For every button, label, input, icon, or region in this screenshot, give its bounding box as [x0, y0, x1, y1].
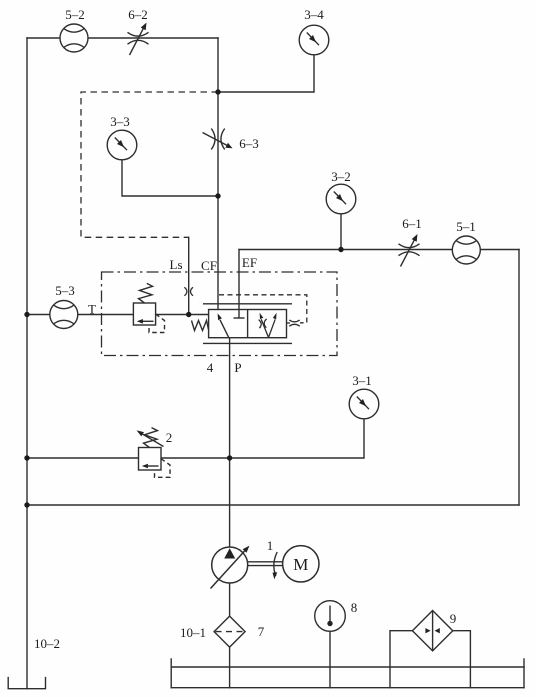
svg-text:Ls: Ls: [170, 257, 183, 272]
node: left riser / relief line: [24, 455, 29, 460]
valve 4 pilot restrictor at right side: [287, 320, 300, 326]
throttle valve 6-2: [128, 23, 149, 56]
valve 4 left square: EF blocked port (T-bar): [234, 310, 245, 319]
wire: left riser x=27 from top header down to tank 10-2: [26, 38, 28, 689]
svg-text:8: 8: [351, 600, 358, 615]
svg-text:3–4: 3–4: [304, 7, 324, 22]
wire: cooler 9 left pipe and drop leg: [390, 631, 412, 688]
svg-text:6–2: 6–2: [128, 7, 148, 22]
filter 7 (10-1): [214, 616, 245, 647]
cooler 9: [412, 611, 452, 651]
wire: P line x=229.6 from valve bottom to pump: [229, 338, 231, 547]
svg-text:3–2: 3–2: [331, 169, 351, 184]
node: CF riser / 3-3 branch: [215, 193, 220, 198]
dash-dot enclosure box of valve assembly 4: [102, 272, 338, 356]
node: left riser / T line: [24, 312, 29, 317]
main proportional valve 4 : body: [203, 304, 292, 344]
svg-text:7: 7: [258, 624, 265, 639]
wire: CF riser x=218 from top header to valve left square: [217, 38, 219, 311]
electric motor M: [283, 546, 319, 582]
pressure compensator valve (in enclosure): [133, 283, 164, 332]
svg-text:M: M: [293, 555, 308, 574]
wire: Ls riser x=188.7 from dashed pilot corner down to T line: [188, 237, 190, 314]
wire: EF riser x=239 up from valve to EF header: [238, 250, 240, 310]
proportional parallel line above body: [203, 303, 292, 305]
svg-text:2: 2: [166, 430, 173, 445]
variable displacement pump 1: [211, 546, 250, 589]
orifice on Ls line: [184, 287, 193, 296]
svg-text:P: P: [234, 360, 241, 375]
pressure gauge 3-3: [107, 130, 137, 160]
node: EF header / 3-2 stem: [338, 247, 343, 252]
svg-text:T: T: [88, 302, 96, 317]
wire: T line y=314.5 from left riser to valve left edge: [27, 314, 209, 316]
wire: filter down to tank bottom: [229, 647, 231, 688]
flow meter 5-3: [50, 301, 78, 329]
wire: relief valve line y=458 with corner up to gauge 3-1: [27, 419, 364, 458]
relief valve 2: [137, 428, 170, 478]
pressure gauge 3-1: [349, 389, 379, 419]
shaft rotation arrow: [273, 552, 278, 579]
svg-text:5–3: 5–3: [55, 283, 75, 298]
pressure gauge 3-4: [299, 25, 329, 55]
svg-text:5–2: 5–2: [65, 7, 85, 22]
throttle valve 6-3: [203, 129, 233, 150]
valve 4 right square: V arrows with restrictor: [259, 313, 277, 338]
svg-text:10–1: 10–1: [180, 625, 206, 640]
wire: EF header y=249.5 to right riser: [239, 249, 519, 251]
wire: top header y=38 from left riser to CF riser: [27, 37, 218, 39]
wire: return line y=505 back to left riser: [27, 504, 519, 506]
valve 4 spring (left side): [192, 321, 209, 331]
dashed pilot line from CF junction to Ls riser (3-3 sensing loop): [81, 92, 218, 237]
flow meter 5-2: [60, 24, 88, 52]
svg-text:3–1: 3–1: [352, 373, 372, 388]
svg-text:6–3: 6–3: [239, 136, 259, 151]
wire: gauge 3-2 stem: [340, 214, 342, 250]
proportional parallel line below body: [203, 342, 292, 344]
drive shaft (double line): [248, 562, 283, 566]
svg-text:CF: CF: [201, 258, 217, 273]
node: CF riser / 3-4 branch: [215, 89, 220, 94]
node: P line / relief line: [227, 455, 232, 460]
valve 4 left square: P-to-CF arrow: [218, 313, 229, 337]
pressure gauge 3-2: [326, 184, 356, 214]
svg-text:5–1: 5–1: [456, 219, 476, 234]
flow meter 5-1: [452, 236, 480, 264]
wire: thermometer 8 stem down to tank bottom: [329, 631, 331, 687]
svg-text:9: 9: [450, 611, 457, 626]
valve 4 pilot dashed line from CF riser to right restrictor: [219, 295, 307, 323]
node: Ls riser / T line: [186, 312, 191, 317]
svg-text:1: 1: [267, 538, 274, 553]
throttle valve 6-1: [399, 234, 420, 267]
node: left riser / return line: [24, 502, 29, 507]
tank (main reservoir): [171, 659, 524, 688]
wire: cooler 9 right pipe and drop leg: [453, 631, 471, 688]
thermometer 8: [315, 601, 346, 632]
svg-text:3–3: 3–3: [110, 114, 130, 129]
svg-text:4: 4: [207, 360, 214, 375]
wire: gauge 3-4 branch at y=92: [218, 55, 314, 92]
wire: right riser x=519 down to return line: [518, 250, 520, 506]
tank 10-2 (small measuring tank, bottom left): [8, 678, 45, 689]
svg-text:EF: EF: [242, 255, 257, 270]
svg-text:6–1: 6–1: [402, 216, 422, 231]
svg-text:10–2: 10–2: [34, 636, 60, 651]
wire: gauge 3-3 branch to CF riser at y=196: [122, 160, 218, 196]
wire: pump outlet down to filter: [229, 583, 231, 616]
